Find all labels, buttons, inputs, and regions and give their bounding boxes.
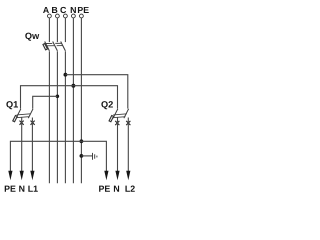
terminal A	[48, 14, 52, 18]
junction dot C	[64, 73, 68, 77]
switch Q2 drive box	[109, 116, 113, 122]
wire phase B to Q1	[33, 96, 58, 108]
switch Q1 label	[6, 101, 18, 109]
terminal B	[56, 14, 60, 18]
switch Q2 linkage	[113, 114, 127, 115]
wire bus A lower	[48, 51, 50, 183]
label L2 right	[125, 186, 134, 192]
label PE left	[5, 186, 16, 192]
wire bus B lower	[56, 51, 58, 183]
label PE right	[99, 186, 110, 192]
wire bus PE	[80, 18, 82, 183]
wire Q1 L1 output	[31, 118, 33, 172]
wire to earth	[81, 155, 92, 157]
node C label	[60, 7, 66, 13]
terminal x Q2 pole N	[115, 121, 119, 125]
wire bus N	[72, 18, 74, 183]
switch Q1 blade pole L	[28, 109, 33, 118]
node PE label	[78, 7, 89, 13]
switch Qw drive box	[43, 44, 47, 50]
label N right	[114, 186, 119, 192]
junction dot B	[56, 95, 60, 99]
switch Qw blade pole B	[53, 42, 58, 51]
arrow L2 right	[126, 171, 130, 180]
arrow L1 left	[30, 171, 34, 180]
wire N to Q1	[21, 86, 74, 109]
wire phase C to Q2	[65, 75, 127, 109]
terminal PE	[80, 14, 84, 18]
wire bus C upper	[64, 18, 66, 42]
junction dot PE earth	[80, 154, 84, 158]
node A label	[43, 7, 49, 13]
node N label	[71, 7, 76, 13]
arrow N right	[115, 171, 119, 180]
switch Q1 drive box	[13, 116, 17, 122]
wire Q2 L2 output	[127, 118, 129, 172]
wire Q1 N output	[21, 118, 23, 172]
wire N to Q2	[73, 86, 117, 109]
wire bus A upper	[48, 18, 50, 42]
earth symbol	[93, 153, 97, 160]
arrow PE left	[8, 171, 12, 180]
switch Qw linkage	[46, 42, 62, 44]
switch Q2 blade pole N	[113, 109, 118, 118]
node B label	[52, 7, 57, 13]
switch Qw blade pole C	[61, 42, 66, 51]
switch Qw label	[25, 33, 39, 41]
junction dot N	[71, 84, 75, 88]
label L1 left	[28, 186, 37, 192]
junction dot PE distribution	[80, 139, 84, 143]
wire bus B upper	[56, 18, 58, 42]
label N left	[19, 186, 24, 192]
wire Q2 N output	[117, 118, 119, 172]
terminal x Q1 pole L	[31, 121, 35, 125]
terminal N	[72, 14, 76, 18]
switch Q1 linkage	[17, 114, 31, 115]
switch Q2 label	[101, 101, 113, 109]
wire bus C lower	[64, 51, 66, 183]
switch Qw blade pole A	[45, 42, 50, 51]
wire PE distribution	[10, 141, 106, 171]
terminal x Q1 pole N	[20, 121, 24, 125]
terminal C	[64, 14, 68, 18]
terminal x Q2 pole L	[126, 121, 130, 125]
switch Q1 blade pole N	[16, 109, 21, 118]
switch Q2 blade pole L	[124, 109, 129, 118]
arrow PE right	[104, 171, 108, 180]
arrow N left	[20, 171, 24, 180]
